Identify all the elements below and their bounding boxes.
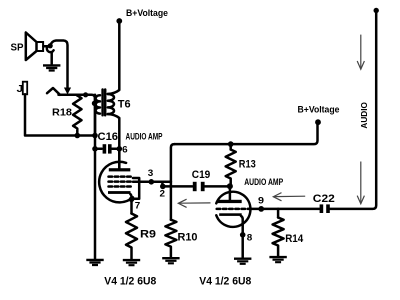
signal arrow left (pin 2): [178, 199, 210, 207]
wire jack tip line to transformer: [59, 95, 96, 136]
ground (R10): [162, 257, 179, 264]
jack spring contact (caret): [47, 88, 60, 95]
ground (triode cathode): [234, 258, 251, 265]
tube V4 triode envelope: [216, 192, 250, 227]
node pin 7: [129, 197, 135, 203]
node audio input top: [374, 8, 379, 13]
svg-text:R18: R18: [52, 107, 72, 119]
pentode grid 2 (dashed, screen): [109, 180, 134, 183]
resistor R9: [126, 199, 156, 258]
resistor R18: [52, 95, 82, 136]
wire ground line down: [94, 95, 97, 259]
wire grid pin 9 to C22: [248, 208, 319, 211]
cathode lead to pin 8: [241, 216, 243, 257]
node pin 9: [258, 206, 264, 212]
svg-text:J: J: [17, 84, 24, 95]
node pin 8: [240, 232, 246, 238]
ground (left rail): [86, 259, 103, 266]
node B+ (left): [116, 18, 122, 24]
signal arrow left (pin 9): [273, 193, 305, 201]
wire screen dropper vertical: [171, 144, 175, 220]
resistor R13: [226, 144, 256, 186]
resistor R14: [273, 209, 304, 256]
node pin 3: [149, 179, 155, 185]
triode plate: [218, 186, 242, 203]
triode grid (dashed): [217, 208, 249, 211]
svg-text:SP: SP: [11, 42, 24, 53]
svg-text:AUDIO: AUDIO: [360, 101, 369, 128]
pentode plate: [109, 149, 131, 172]
svg-text:C22: C22: [313, 193, 335, 205]
node R18 bottom: [75, 133, 81, 139]
svg-text:R10: R10: [178, 231, 198, 243]
speaker SP: [11, 33, 44, 61]
transformer T6: [96, 90, 131, 116]
capacitor C16: [95, 131, 119, 154]
tube V4 pentode envelope: [99, 162, 133, 203]
node C16 left: [92, 146, 98, 152]
svg-text:V4 1/2 6U8: V4 1/2 6U8: [199, 275, 251, 287]
svg-text:R9: R9: [140, 228, 156, 240]
svg-text:C19: C19: [192, 169, 211, 181]
svg-text:V4 1/2 6U8: V4 1/2 6U8: [104, 275, 156, 287]
capacitor C22: [313, 193, 335, 213]
svg-text:8: 8: [247, 232, 253, 243]
ground (R14): [269, 256, 286, 263]
svg-text:B+Voltage: B+Voltage: [298, 105, 340, 115]
triode cathode: [219, 213, 242, 216]
wire speaker to plug: [43, 45, 48, 48]
svg-text:6: 6: [122, 144, 128, 155]
svg-text:AUDIO AMP: AUDIO AMP: [244, 177, 283, 187]
node secondary top: [92, 101, 97, 106]
cathode lead to pin 7: [130, 194, 131, 197]
wire plug loop to jack arm: [50, 41, 67, 89]
pentode cathode: [108, 191, 131, 194]
arrowhead plug into jack: [64, 88, 71, 95]
ground (speaker plug): [43, 53, 60, 72]
B+ rail (middle): [174, 124, 317, 144]
svg-text:T6: T6: [118, 99, 131, 111]
svg-text:7: 7: [135, 201, 141, 212]
wire secondary top to B+ line: [108, 21, 120, 94]
wire C22 to audio input rail: [330, 11, 376, 209]
pentode grid 1 (dashed): [109, 175, 134, 178]
node R13 top: [228, 141, 234, 147]
jack hook contact: [47, 47, 54, 52]
svg-text:2: 2: [160, 188, 166, 199]
node tube2 plate / C19 / R13 junction: [227, 183, 233, 189]
node pin 6: [117, 146, 123, 152]
jog pin3 to grid line: [161, 182, 164, 187]
pentode grid 3 (dashed): [109, 185, 134, 188]
node pin 2: [160, 184, 166, 190]
capacitor C19: [192, 169, 230, 191]
wire control grid to C19: [162, 185, 192, 188]
svg-text:R13: R13: [239, 158, 256, 170]
svg-text:C16: C16: [98, 131, 119, 143]
resistor R10: [165, 220, 197, 257]
svg-text:3: 3: [148, 168, 154, 179]
svg-text:9: 9: [258, 195, 264, 206]
ground (R9): [123, 259, 140, 266]
svg-text:AUDIO AMP: AUDIO AMP: [126, 131, 163, 141]
suppressor-to-cathode bracket: [132, 178, 140, 199]
svg-text:R14: R14: [285, 233, 303, 245]
node ground-line junction: [92, 133, 98, 139]
node R18 top junction: [83, 92, 88, 97]
plug tip (node): [48, 43, 53, 48]
svg-text:B+Voltage: B+Voltage: [126, 8, 168, 18]
jack J: [17, 82, 28, 95]
signal arrow down (bottom): [357, 162, 364, 204]
wire jack sleeve to bottom rail: [25, 94, 95, 135]
node B+ (middle): [315, 119, 321, 125]
wire secondary bottom to plate line: [108, 114, 120, 168]
wire screen grid to pin 3: [133, 181, 171, 184]
signal arrow down (top): [357, 35, 364, 70]
